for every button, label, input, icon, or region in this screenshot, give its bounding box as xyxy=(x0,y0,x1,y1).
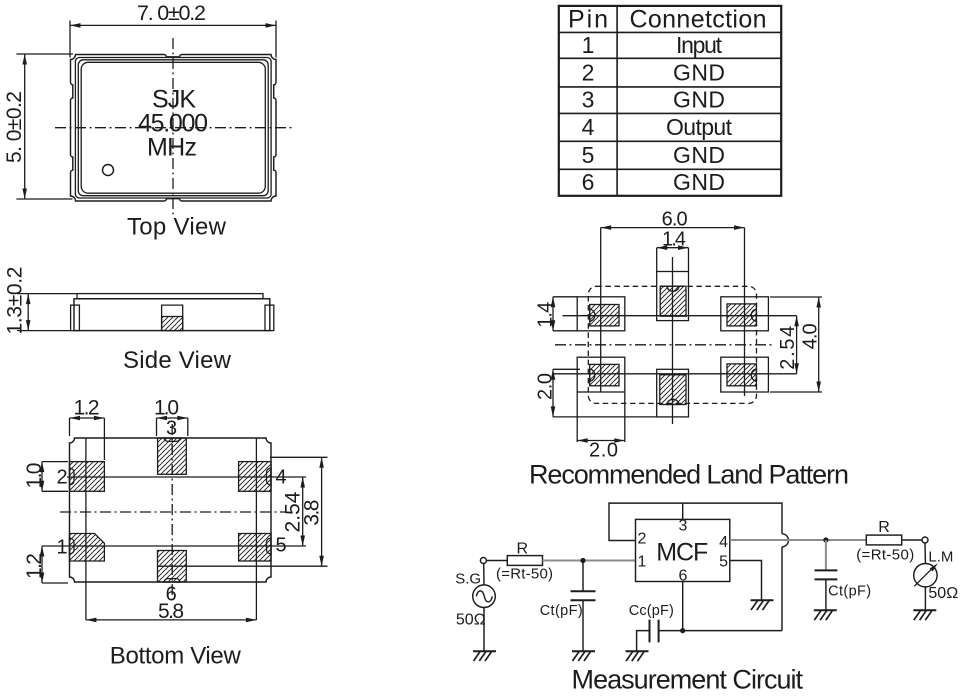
svg-text:1.0: 1.0 xyxy=(23,463,46,489)
svg-text:5. 0±0.2: 5. 0±0.2 xyxy=(3,91,26,163)
horizontal centerline xyxy=(555,344,775,346)
dim 2.0 left extensions xyxy=(553,369,657,417)
dim 2.54 line xyxy=(302,477,304,546)
dim 1.2 left line xyxy=(41,546,43,583)
svg-text:3: 3 xyxy=(679,518,688,535)
pad 5 castellation xyxy=(267,538,272,554)
package third outline xyxy=(78,60,268,196)
svg-text:Top View: Top View xyxy=(127,214,227,241)
svg-text:GND: GND xyxy=(673,87,725,113)
svg-text:1.2: 1.2 xyxy=(74,397,100,420)
svg-text:L.M: L.M xyxy=(928,549,953,566)
body xyxy=(74,299,270,331)
svg-text:1.3±0.2: 1.3±0.2 xyxy=(3,267,26,335)
level meter L.M xyxy=(914,562,940,587)
pin5 castellation xyxy=(751,369,756,381)
land pad pin5 xyxy=(727,364,756,386)
dim 1.4 left line xyxy=(552,297,554,331)
svg-text:4: 4 xyxy=(582,114,595,140)
node pin6 junction xyxy=(680,628,685,633)
horizontal centerline xyxy=(55,127,292,129)
BOTTOM VIEW xyxy=(23,397,328,670)
pad 1 castellation xyxy=(70,538,75,554)
table column line xyxy=(616,6,618,196)
package lid outline xyxy=(81,62,265,193)
crossover hop xyxy=(782,534,789,547)
package outline dashed xyxy=(588,286,756,403)
svg-text:GND: GND xyxy=(673,169,725,195)
svg-text:Ct(pF): Ct(pF) xyxy=(540,603,583,619)
svg-text:3: 3 xyxy=(582,87,595,113)
svg-text:1: 1 xyxy=(56,537,67,559)
pin 1 index circle xyxy=(103,165,114,176)
svg-text:Bottom View: Bottom View xyxy=(110,643,242,670)
svg-text:3: 3 xyxy=(166,418,177,440)
svg-text:4.0: 4.0 xyxy=(800,323,822,349)
land pad pin3 xyxy=(660,286,686,316)
land outline pin2 xyxy=(577,297,625,331)
svg-text:Connetction: Connetction xyxy=(630,5,767,33)
capacitor Ct2 xyxy=(815,570,838,579)
pad 2 castellation xyxy=(70,468,75,485)
land pad pin6 xyxy=(660,375,686,405)
5.8 extension line left xyxy=(85,438,87,620)
pin4 castellation xyxy=(751,309,756,321)
wire pin 4 to R2 xyxy=(730,539,867,541)
dim 4.0 extensions xyxy=(770,297,822,392)
vertical centerline xyxy=(171,424,173,600)
svg-text:7. 0±0.2: 7. 0±0.2 xyxy=(137,1,206,25)
dim 1.3±0.2 line xyxy=(27,294,29,331)
pad 1 xyxy=(70,534,105,562)
dim 1.3±0.2 extension lines xyxy=(17,294,77,331)
svg-text:1.4: 1.4 xyxy=(535,302,557,328)
svg-text:50Ω: 50Ω xyxy=(928,585,958,602)
pad 3 castellation xyxy=(164,438,180,441)
svg-text:2: 2 xyxy=(638,530,647,547)
svg-text:S.G: S.G xyxy=(455,570,481,587)
dim 5.8 line xyxy=(86,619,257,621)
center pad hatch xyxy=(162,317,183,331)
SIDE VIEW xyxy=(3,267,273,375)
pin3 castellation xyxy=(667,286,679,291)
wire junction to Ct2 xyxy=(825,540,827,570)
dim 1.4 top extensions xyxy=(657,248,689,272)
land outline pin5 xyxy=(721,357,769,392)
dim 1.2 top extensions xyxy=(70,418,105,460)
pad 2 xyxy=(70,462,105,492)
svg-text:3.8: 3.8 xyxy=(300,500,323,526)
dim 1.2 left extensions xyxy=(42,582,68,584)
dim 1.0 left line xyxy=(41,462,43,492)
wire bottom rail xyxy=(683,630,782,632)
wire pin 3 to rail xyxy=(682,503,684,519)
table row lines xyxy=(559,32,781,169)
wire Ct2 to ground xyxy=(825,579,827,610)
svg-text:1.0: 1.0 xyxy=(154,397,179,420)
wire junction to Ct1 xyxy=(582,561,584,591)
dim 2.0 bottom extensions xyxy=(577,392,625,442)
wire Cc to ground xyxy=(637,631,650,651)
wire pin 6 down xyxy=(682,582,684,631)
pin6 castellation xyxy=(667,399,679,404)
land outline pin1 xyxy=(577,357,625,392)
svg-text:GND: GND xyxy=(673,142,725,168)
svg-text:Output: Output xyxy=(666,114,733,140)
input terminal node xyxy=(480,558,486,564)
land pad pin1 xyxy=(590,364,619,385)
wire R1 to MCF pin 1 xyxy=(543,560,636,562)
svg-text:5: 5 xyxy=(719,553,728,570)
package outline xyxy=(70,438,272,582)
MEASUREMENT CIRCUIT xyxy=(455,503,958,694)
dim 6.0 line xyxy=(601,227,745,229)
node output junction xyxy=(823,537,828,542)
svg-text:50Ω: 50Ω xyxy=(456,612,486,629)
svg-text:R: R xyxy=(517,541,529,558)
left terminal xyxy=(71,305,80,331)
svg-text:Input: Input xyxy=(676,32,723,58)
signal generator S.G xyxy=(473,585,496,608)
pad 4 xyxy=(239,462,271,492)
dim 7.0±0.2 line xyxy=(70,24,276,26)
pad 4 castellation xyxy=(267,468,272,485)
dim 5.0±0.2 line xyxy=(24,54,26,199)
wire Ct1 to ground xyxy=(582,600,584,651)
svg-text:MCF: MCF xyxy=(656,539,708,567)
svg-text:6.0: 6.0 xyxy=(662,208,688,230)
svg-text:4: 4 xyxy=(275,466,286,488)
vertical centerline xyxy=(672,257,674,424)
filter MCF U1 xyxy=(636,519,730,581)
wire R2 to output terminal xyxy=(902,539,922,541)
dim 6.0 extension left xyxy=(600,228,602,392)
wire S.G to terminal xyxy=(483,564,485,651)
pad 6 castellation xyxy=(164,579,180,582)
row line pins 1-5 xyxy=(42,545,306,547)
resistor R1 xyxy=(507,556,542,566)
capacitor Ct1 xyxy=(571,591,596,600)
svg-text:Measurement Circuit: Measurement Circuit xyxy=(572,665,804,695)
svg-text:Pin: Pin xyxy=(568,5,608,33)
svg-text:2.0: 2.0 xyxy=(589,439,618,461)
land pad pin4 xyxy=(727,304,756,326)
wire hop down to bottom rail xyxy=(781,547,783,631)
dim 4.0 line xyxy=(818,297,820,392)
pin2 castellation xyxy=(590,309,595,321)
dim 1.2 top line xyxy=(70,417,105,419)
right terminal xyxy=(265,305,274,331)
wire pin 2 feedback loop xyxy=(609,503,782,540)
svg-text:(=Rt-50): (=Rt-50) xyxy=(856,546,914,563)
svg-text:(=Rt-50): (=Rt-50) xyxy=(496,565,553,582)
svg-text:GND: GND xyxy=(673,59,725,85)
node input junction xyxy=(580,558,585,563)
pin1 castellation xyxy=(590,369,595,381)
dim 2.54 line xyxy=(796,316,798,374)
svg-text:2: 2 xyxy=(582,59,595,85)
output terminal node xyxy=(922,537,928,543)
dim 1.0 top extensions xyxy=(157,418,188,436)
wire pin 5 xyxy=(730,561,762,600)
row line lower xyxy=(553,373,797,375)
svg-text:5: 5 xyxy=(275,535,286,557)
row line pins 2-4 xyxy=(67,476,306,478)
svg-text:R: R xyxy=(878,519,890,536)
PIN TABLE xyxy=(559,5,781,196)
dim 3.8 extensions xyxy=(158,457,328,566)
dim 2.0 left line xyxy=(552,369,554,417)
svg-text:1.4: 1.4 xyxy=(662,228,686,250)
dim 1.0 top line xyxy=(157,417,188,419)
wire terminal to R1 xyxy=(486,560,507,562)
svg-text:Side View: Side View xyxy=(123,347,232,374)
table border xyxy=(559,6,781,196)
svg-text:5: 5 xyxy=(582,142,595,168)
dim 7.0±0.2 extension lines xyxy=(70,21,276,58)
ground L.M xyxy=(913,610,936,620)
svg-text:Recommended Land Pattern: Recommended Land Pattern xyxy=(529,460,849,490)
svg-text:2: 2 xyxy=(56,466,67,488)
land outline pin4 xyxy=(721,297,769,331)
svg-text:MHz: MHz xyxy=(147,134,197,162)
5.8 extension line right xyxy=(255,438,257,620)
dim 3.8 line xyxy=(321,457,323,566)
dim 1.4 top line xyxy=(657,247,689,249)
row line upper xyxy=(563,315,797,317)
dim 6.0 extension right xyxy=(744,228,746,396)
svg-text:5.8: 5.8 xyxy=(158,600,184,623)
ground pin 5 xyxy=(751,600,774,610)
center pad outline xyxy=(162,305,183,331)
pad 6 xyxy=(158,551,187,583)
ground Ct2 xyxy=(814,610,837,620)
svg-text:Cc(pF): Cc(pF) xyxy=(629,603,674,619)
svg-text:1: 1 xyxy=(638,553,647,570)
resistor R2 xyxy=(866,535,901,545)
pad 5 xyxy=(239,534,271,562)
vertical centerline xyxy=(172,38,174,215)
wire Cc to junction xyxy=(659,630,683,632)
svg-text:2.54: 2.54 xyxy=(777,326,799,370)
wire L.M to ground xyxy=(924,587,926,610)
pad 3 xyxy=(158,438,187,474)
capacitor Cc xyxy=(650,620,659,643)
svg-text:1: 1 xyxy=(582,32,595,58)
wire terminal to L.M xyxy=(924,543,926,564)
svg-text:6: 6 xyxy=(582,169,595,195)
ground S.G xyxy=(473,651,496,661)
land pad pin2 xyxy=(590,305,619,326)
svg-text:1.2: 1.2 xyxy=(23,553,46,579)
dim 2.0 bottom line xyxy=(577,440,625,442)
package outer outline with castellation notches xyxy=(71,55,277,202)
svg-text:Ct(pF): Ct(pF) xyxy=(828,584,871,600)
dim 1.4 left extensions xyxy=(553,297,577,331)
LAND PATTERN xyxy=(529,208,849,489)
dim 1.0 left extensions xyxy=(42,462,68,492)
horizontal centerline xyxy=(60,511,286,513)
svg-text:4: 4 xyxy=(719,534,728,551)
package second outline xyxy=(75,58,271,199)
ground Cc xyxy=(626,651,649,661)
land outline pin6 xyxy=(657,369,689,417)
land outline pin3 xyxy=(657,272,689,321)
dim 5.0±0.2 extension lines xyxy=(16,54,73,199)
lid xyxy=(77,294,263,299)
TOP VIEW xyxy=(3,1,292,241)
svg-text:2.0: 2.0 xyxy=(535,373,557,400)
ground Ct1 xyxy=(572,651,595,661)
